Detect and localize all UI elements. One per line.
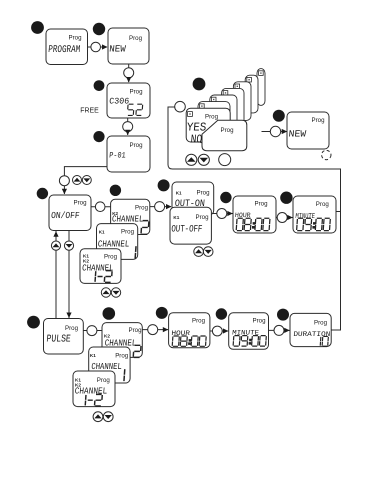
svg-text:K1: K1 [173, 215, 179, 220]
day indicator square 2 [200, 104, 205, 109]
connector circle c6 [155, 202, 165, 212]
day indicator square 6 [247, 77, 252, 82]
key dot C306 [94, 80, 105, 91]
box OUT-ON [172, 182, 214, 215]
7seg digit 2 bottom [133, 345, 141, 357]
arrowhead up into ON/OFF bottom [53, 231, 58, 237]
wire CHANNEL to HOUR bottom [142, 329, 168, 331]
box PROGRAM [46, 29, 88, 65]
svg-text:OUT-OFF: OUT-OFF [171, 224, 203, 235]
box NO overlay with folded corner [202, 120, 247, 150]
svg-text:NO: NO [190, 132, 203, 146]
arrowhead into MINUTE bottom [223, 328, 229, 333]
dashed continuation circle [322, 150, 331, 159]
svg-text:Prog: Prog [129, 35, 142, 42]
up key circle above ON/OFF [73, 176, 82, 185]
box CHANNEL 1-2 mid [80, 249, 121, 284]
key dot MINUTE bottom [216, 308, 227, 319]
svg-text:Prog: Prog [115, 352, 128, 359]
7seg digit 2 mid [141, 221, 149, 235]
connector circle c13 [212, 326, 222, 336]
svg-text:DURATION: DURATION [293, 331, 331, 339]
svg-text:Prog: Prog [121, 228, 134, 235]
svg-text:CHANNEL: CHANNEL [97, 238, 129, 249]
box CHANNEL 1 bottom [89, 347, 130, 383]
box YES day screen [186, 108, 230, 142]
svg-text:C306: C306 [109, 97, 130, 107]
7seg digits 0900 top [297, 218, 331, 230]
svg-text:Prog: Prog [314, 319, 327, 326]
connector circle c12 [148, 325, 158, 335]
svg-text:Prog: Prog [74, 200, 87, 207]
box CHANNEL 2 bottom [102, 323, 142, 358]
key dot DURATION [277, 309, 289, 321]
down key circle below CHANNEL bottom [103, 412, 113, 422]
connector circle c1 [91, 42, 101, 52]
7seg digits 0900 bottom [233, 336, 266, 347]
connector circle c2 [124, 68, 134, 78]
day screen 7 of cascade [257, 69, 265, 106]
key dot OUT-ON [158, 179, 170, 191]
arrowhead into HOUR bottom [163, 327, 169, 332]
wire ON/OFF PULSE toggle right [68, 231, 70, 319]
up key circle below CHANNEL bottom [93, 412, 103, 422]
arrowhead into NEW [102, 44, 108, 49]
svg-text:Prog: Prog [253, 318, 266, 325]
wire OUT-OFF to HOUR [211, 213, 232, 215]
box MINUTE bottom [229, 313, 269, 350]
svg-text:ON/OFF: ON/OFF [51, 210, 80, 221]
box CHANNEL 1-2 bottom [73, 371, 115, 407]
arrowhead into P-01 [125, 130, 130, 136]
svg-text:CHANNEL: CHANNEL [82, 262, 114, 273]
svg-text:NEW: NEW [288, 129, 307, 140]
key dot NEW second [273, 110, 285, 122]
svg-text:Prog: Prog [130, 89, 143, 96]
svg-text:Prog: Prog [69, 35, 82, 42]
box ON/OFF [49, 195, 91, 231]
key dot HOUR top [220, 192, 231, 203]
svg-text:PULSE: PULSE [46, 333, 71, 345]
arrowhead into ON/OFF [62, 189, 67, 195]
key dot CHANNEL bottom [103, 307, 116, 320]
svg-text:Prog: Prog [65, 325, 78, 332]
box DURATION [290, 313, 331, 346]
svg-text:Prog: Prog [135, 205, 148, 212]
up key circle below CHANNEL mid [101, 288, 110, 297]
connector circle c14 [274, 325, 284, 335]
svg-text:CHANNEL: CHANNEL [111, 213, 143, 224]
day screen 2 of cascade [198, 102, 230, 143]
7seg digit 1 bottom [123, 369, 126, 381]
svg-text:Prog: Prog [192, 317, 205, 324]
box PULSE [44, 319, 84, 355]
key dot PROGRAM [31, 21, 44, 34]
svg-text:FREE: FREE [80, 105, 99, 114]
svg-text:NEW: NEW [109, 43, 127, 54]
day screen 5 of cascade [233, 82, 251, 121]
down key circle cascade [198, 154, 209, 165]
wire HOUR to MINUTE [276, 217, 293, 219]
box CHANNEL 2 mid [111, 199, 150, 234]
svg-text:Prog: Prog [129, 327, 142, 334]
wire NEW down to C306 [128, 64, 130, 82]
wire ON/OFF PULSE toggle left [55, 231, 57, 319]
box CHANNEL 1 mid [97, 224, 138, 260]
connector circle c10 [270, 126, 280, 136]
connector circle into cascade [175, 101, 186, 112]
7seg digits 10 [320, 336, 328, 346]
connector circle c7 [217, 209, 227, 219]
svg-text:Prog: Prog [196, 214, 209, 221]
7seg digits 0800 bottom [172, 336, 206, 346]
connector circle c4 [59, 176, 69, 186]
day indicator square 1 [188, 112, 193, 117]
wire CHANNEL to OUT-ON/OFF [150, 206, 171, 208]
up key circle on toggle wire [51, 241, 60, 250]
wire ON/OFF to CHANNEL stack [91, 206, 111, 208]
svg-text:Prog: Prog [97, 377, 110, 384]
svg-text:K1: K1 [176, 191, 182, 196]
day indicator square 3 [211, 97, 216, 102]
svg-text:Prog: Prog [221, 127, 234, 134]
wire MINUTE to DURATION [269, 329, 290, 331]
7seg digits 52 free [128, 104, 143, 115]
wire PULSE to CHANNEL stack [83, 330, 102, 332]
day screen 6 of cascade [245, 75, 258, 113]
wire return loop to YES/NO cascade [168, 107, 341, 330]
day indicator square 4 [223, 91, 228, 96]
down key circle below OUT-OFF [203, 247, 213, 257]
key dot P-01 [93, 131, 104, 142]
arrowhead into MINUTE top [287, 215, 293, 220]
svg-text:CHANNEL: CHANNEL [74, 386, 108, 397]
box NEW [108, 28, 149, 64]
svg-text:PROGRAM: PROGRAM [48, 44, 81, 56]
key dot NEW [93, 23, 105, 35]
wire HOUR to MINUTE bottom [210, 330, 228, 332]
7seg digits 0800 top [236, 218, 270, 230]
down key circle on toggle wire [64, 241, 73, 250]
wire PROGRAM to NEW [88, 46, 108, 48]
key dot PULSE [27, 316, 40, 329]
svg-text:Prog: Prog [255, 200, 268, 207]
arrowhead into HOUR [227, 211, 233, 216]
box P-01 [107, 136, 150, 172]
svg-text:K1: K1 [90, 353, 96, 358]
wire circle to NEW2 [281, 131, 287, 133]
up key circle cascade [186, 154, 197, 165]
svg-text:Prog: Prog [205, 114, 218, 121]
svg-text:K1: K1 [99, 229, 105, 234]
key dot HOUR bottom [156, 307, 168, 319]
arrowhead into OUT screens [166, 204, 172, 209]
svg-text:Prog: Prog [104, 253, 117, 260]
arrowhead into C306 [126, 77, 131, 83]
box OUT-OFF [170, 207, 211, 244]
connector circle c11 [87, 326, 97, 336]
wire P-01 to ON/OFF [64, 167, 107, 194]
svg-text:Prog: Prog [197, 190, 210, 197]
box HOUR bottom [169, 313, 210, 348]
key dot MINUTE top [280, 192, 292, 204]
box C306 free programs [107, 83, 150, 118]
svg-text:MINUTE: MINUTE [232, 330, 259, 338]
ok key circle cascade [219, 154, 231, 166]
arrowhead into NEW2 [282, 129, 288, 134]
arrowhead into DURATION [284, 328, 290, 333]
7seg digits 1-2 mid [95, 271, 112, 283]
day indicator square 7 [259, 71, 264, 76]
box HOUR top [233, 196, 276, 233]
arrowhead down into PULSE top [66, 313, 71, 319]
connector circle c3 [123, 122, 133, 132]
arrowhead into YES screen [180, 104, 186, 109]
day indicator square 5 [235, 84, 240, 89]
key dot ON/OFF [37, 188, 48, 199]
key dot CHANNEL mid [110, 185, 121, 196]
key dot cascade [193, 78, 206, 91]
box MINUTE top [293, 196, 336, 233]
up key circle below OUT-OFF [194, 247, 204, 257]
svg-text:Prog: Prog [312, 117, 325, 124]
down key circle above ON/OFF [82, 176, 91, 185]
day screen 4 of cascade [222, 88, 244, 128]
wire C306 down to P-01 [127, 118, 129, 135]
svg-text:P-01: P-01 [109, 151, 126, 160]
day screen 3 of cascade [210, 95, 237, 135]
box NEW next program [287, 112, 329, 149]
svg-text:CHANNEL: CHANNEL [91, 361, 122, 372]
svg-text:Prog: Prog [130, 142, 143, 149]
7seg digits 1-2 bottom [85, 394, 102, 406]
wire MINUTE junction stub [336, 211, 341, 213]
7seg digit 1 mid [134, 246, 137, 258]
down key circle below CHANNEL mid [111, 288, 120, 297]
connector circle c8 [277, 213, 287, 223]
svg-text:Prog: Prog [316, 201, 329, 208]
connector circle c5 [95, 202, 105, 212]
wire stub to NEW next program [262, 131, 271, 133]
